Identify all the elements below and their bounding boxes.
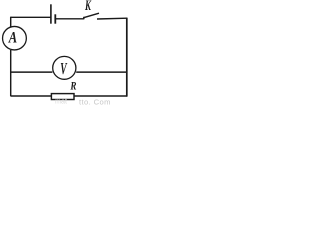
svg-text:tto. Com: tto. Com — [79, 98, 111, 105]
svg-text:mat: mat — [55, 97, 67, 105]
svg-text:R: R — [70, 80, 77, 92]
svg-text:A: A — [8, 29, 17, 47]
svg-text:K: K — [84, 0, 91, 13]
